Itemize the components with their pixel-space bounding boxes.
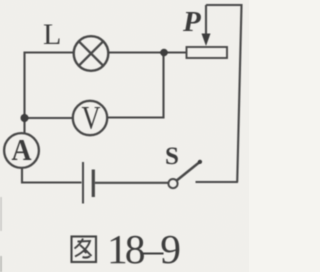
svg-text:V: V — [82, 101, 101, 137]
lamp L circle — [74, 36, 109, 71]
voltmeter V circle — [73, 101, 107, 135]
switch S lever tip blob — [198, 160, 202, 164]
battery short plate (-) — [92, 170, 95, 198]
lamp L cross stroke 2 — [79, 41, 103, 65]
wire: wiper to top-right corner and right vertical — [206, 5, 242, 182]
rheostat P wiper arrow stem — [205, 5, 207, 36]
scan smudge bottom-left corner — [0, 256, 2, 272]
switch S lever — [177, 162, 201, 181]
svg-text:L: L — [43, 18, 61, 51]
lamp L cross stroke 1 — [79, 41, 103, 65]
switch S pivot circle — [168, 179, 177, 188]
wire: battery to switch — [95, 182, 169, 184]
wire: junction A down to voltmeter right side — [108, 54, 164, 118]
wire: junction B to voltmeter left side — [25, 117, 74, 119]
wire: switch to right vertical — [196, 181, 239, 183]
paper background — [0, 0, 249, 272]
ammeter A circle — [4, 133, 39, 168]
svg-text:P: P — [182, 6, 201, 38]
node A junction dot (lamp/rheostat/voltmeter) — [160, 49, 168, 57]
svg-text:18–9: 18–9 — [107, 226, 180, 272]
svg-text:S: S — [165, 143, 179, 170]
caption: hanzi 图 drawn as strokes — [72, 237, 97, 263]
wire: ammeter to battery positive plate — [22, 168, 82, 183]
rheostat P arrow head — [202, 34, 211, 47]
svg-text:A: A — [12, 132, 33, 167]
rheostat P body — [187, 47, 228, 58]
scan smudge left edge — [0, 197, 2, 231]
wire: junction B to ammeter — [23, 118, 25, 134]
wire: left vertical and top-left segment to lamp — [25, 53, 75, 118]
wire: lamp to rheostat — [109, 51, 187, 53]
node B junction dot (left wire/voltmeter/ammeter) — [21, 114, 29, 122]
battery long plate (+) — [82, 162, 84, 204]
